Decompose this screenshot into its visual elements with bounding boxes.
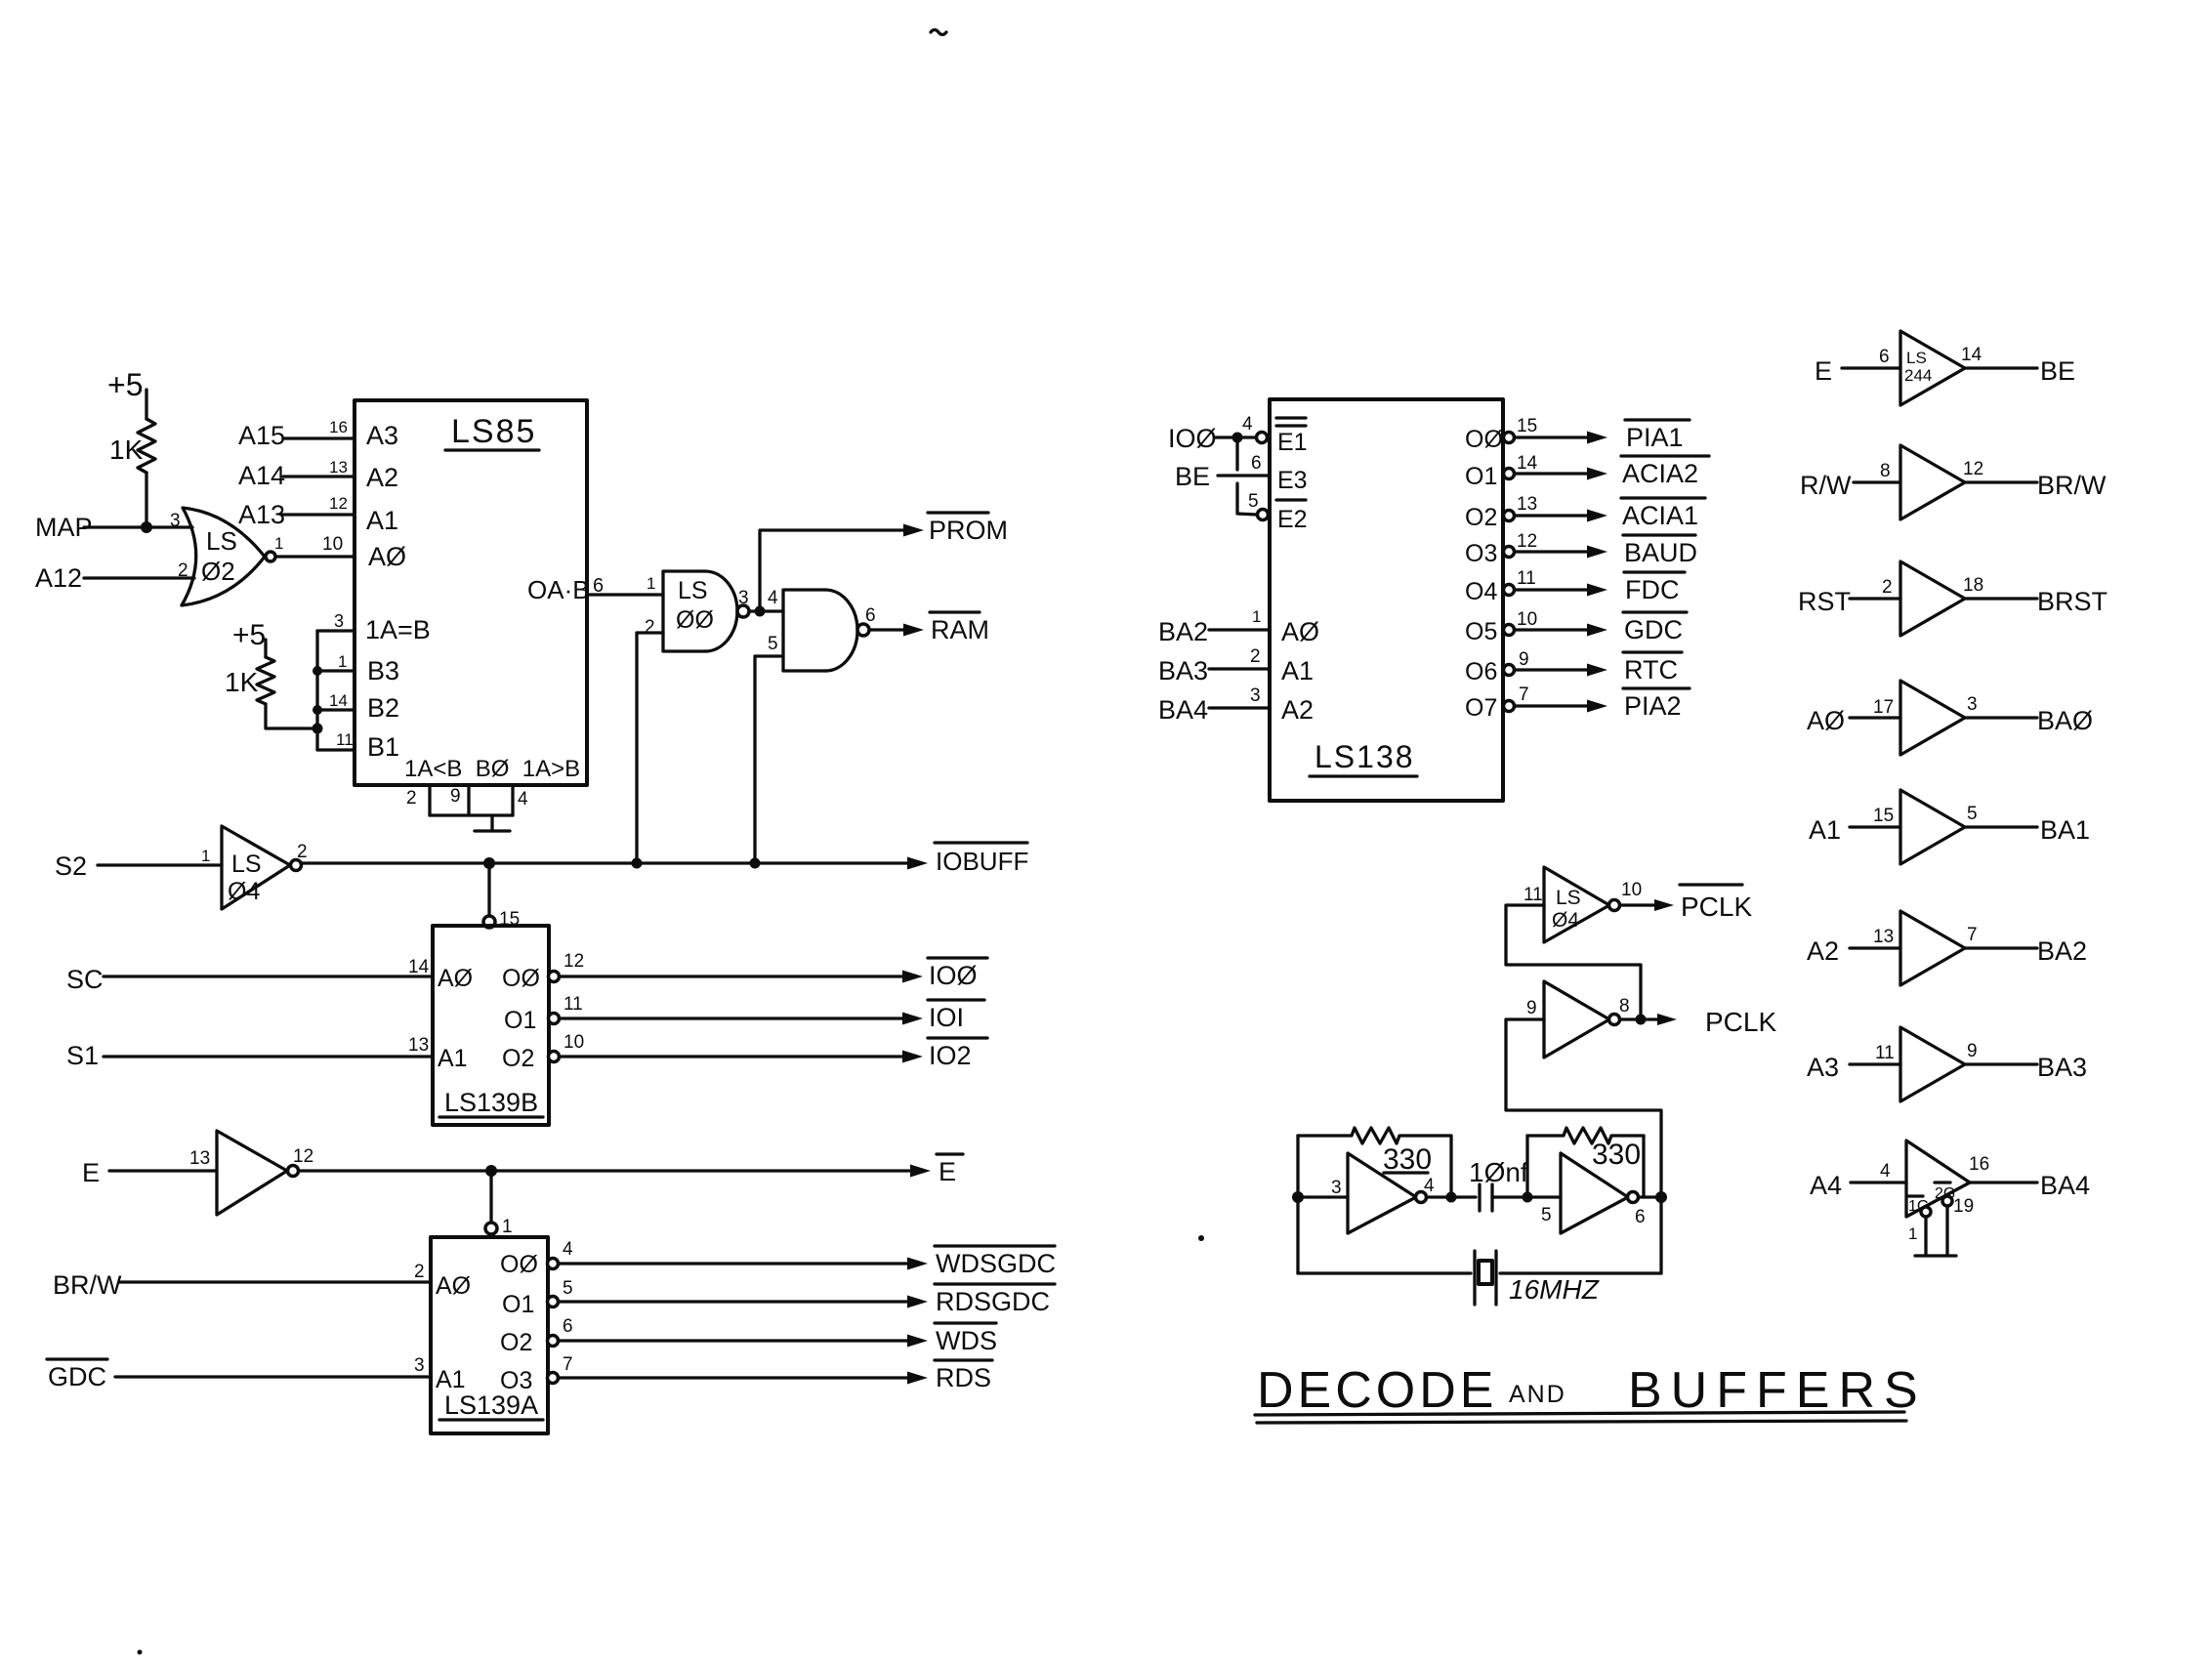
svg-text:ACIA1: ACIA1	[1622, 501, 1698, 530]
svg-text:S1: S1	[66, 1041, 99, 1070]
svg-text:5: 5	[1248, 491, 1259, 512]
svg-text:IOBUFF: IOBUFF	[936, 847, 1028, 876]
LS139A O0 pin4 output	[548, 1239, 929, 1270]
svg-text:BR/W: BR/W	[2037, 471, 2107, 500]
svg-text:BA4: BA4	[1158, 695, 1208, 725]
svg-text:A1: A1	[366, 506, 398, 535]
svg-text:1Ønf: 1Ønf	[1469, 1157, 1528, 1187]
svg-text:IOØ: IOØ	[1168, 424, 1217, 453]
svg-text:1: 1	[274, 534, 283, 553]
LS139A O3 pin7 output	[548, 1354, 929, 1385]
inverter (osc1, pins 3-4)	[1331, 1153, 1435, 1233]
svg-text:3: 3	[334, 611, 344, 631]
buffer RST->BRST	[1798, 561, 2108, 636]
svg-text:E: E	[1815, 356, 1832, 386]
svg-text:12: 12	[563, 951, 584, 972]
svg-text:Ø4: Ø4	[1552, 909, 1579, 932]
inverter (PCLK, pins 9-8)	[1526, 981, 1630, 1058]
svg-text:BR/W: BR/W	[53, 1270, 122, 1300]
svg-text:3: 3	[1967, 694, 1978, 715]
svg-text:A1: A1	[436, 1366, 466, 1393]
stub pin1 B3	[317, 669, 355, 672]
svg-text:11: 11	[1517, 568, 1536, 589]
svg-text:13: 13	[408, 1035, 429, 1056]
svg-text:O2: O2	[502, 1045, 534, 1072]
svg-text:BAUD: BAUD	[1624, 538, 1697, 567]
LS138 O1 pin14 output to ACIA2	[1465, 453, 1709, 490]
svg-text:9: 9	[1967, 1041, 1978, 1061]
arrow RAM	[903, 624, 924, 637]
GDC input label (overline)	[47, 1359, 107, 1391]
svg-text:ØØ: ØØ	[676, 606, 714, 634]
svg-text:1K: 1K	[225, 667, 259, 697]
svg-text:O1: O1	[1465, 463, 1497, 490]
svg-text:5: 5	[1541, 1205, 1552, 1225]
svg-text:SC: SC	[66, 965, 104, 994]
svg-text:LS: LS	[1906, 349, 1927, 367]
arrow PCLKbar	[1654, 899, 1674, 911]
svg-text:2: 2	[297, 842, 308, 862]
LS139A O1 pin5 output	[548, 1278, 929, 1308]
svg-text:O3: O3	[1465, 540, 1497, 567]
svg-text:16: 16	[329, 418, 348, 436]
+5 supply (top left)	[107, 367, 146, 419]
svg-text:O4: O4	[1465, 578, 1497, 605]
NAND gate 2 (RAM)	[768, 590, 876, 671]
svg-text:6: 6	[1879, 347, 1890, 367]
net IO1 label	[928, 1000, 984, 1032]
wire BR/W to A0 pin2	[119, 1280, 431, 1283]
buffer A1->BA1	[1809, 790, 2090, 864]
LS138 O6 pin9 output to RTC	[1465, 649, 1682, 685]
svg-text:15: 15	[1873, 806, 1894, 826]
svg-text:BRST: BRST	[2037, 587, 2108, 616]
svg-text:10: 10	[1517, 609, 1537, 630]
wire LS00 output to NAND2 pin4	[749, 609, 783, 612]
svg-text:4: 4	[563, 1239, 573, 1260]
svg-text:PCLK: PCLK	[1705, 1007, 1776, 1037]
svg-text:13: 13	[329, 458, 348, 477]
buffer LS244 E->BE	[1815, 331, 2075, 405]
svg-text:B1: B1	[367, 732, 399, 762]
svg-text:LS85: LS85	[451, 413, 536, 450]
LS138 O5 pin10 output to GDC	[1465, 609, 1687, 645]
LS139B O2 pin10 output	[549, 1032, 924, 1063]
svg-text:10: 10	[563, 1032, 584, 1053]
svg-text:BA3: BA3	[2037, 1053, 2087, 1082]
svg-text:LS: LS	[678, 577, 708, 604]
wire GDC to A1 pin3	[115, 1375, 431, 1378]
svg-text:A2: A2	[366, 463, 398, 492]
LS85 bottom pins 2,9,4	[406, 785, 528, 815]
ground (LS244 enables)	[1915, 1254, 1956, 1257]
wire osc loop2 left	[1525, 1136, 1528, 1197]
svg-text:FDC: FDC	[1625, 575, 1680, 604]
inverter (osc2, pins 5-6)	[1541, 1153, 1646, 1233]
svg-text:AØ: AØ	[436, 1272, 471, 1300]
arrow PROM	[903, 524, 924, 537]
svg-text:11: 11	[336, 730, 354, 749]
svg-text:+5: +5	[107, 367, 143, 402]
stub pin14 B2	[317, 708, 355, 711]
svg-text:4: 4	[1424, 1176, 1435, 1196]
svg-text:Ø2: Ø2	[201, 557, 235, 586]
svg-text:1: 1	[502, 1217, 513, 1237]
resistor 1K (B-side)	[225, 657, 274, 704]
svg-text:S2: S2	[55, 851, 87, 881]
wire NAND2 pin5 from IOBUFF	[755, 656, 783, 863]
svg-text:330: 330	[1592, 1139, 1641, 1171]
svg-text:11: 11	[1875, 1043, 1895, 1063]
wire LS139B enable from IOBUFF	[487, 863, 490, 916]
svg-text:PIA1: PIA1	[1626, 423, 1684, 452]
svg-text:IOØ: IOØ	[929, 961, 978, 990]
svg-text:A1: A1	[1809, 815, 1841, 845]
svg-text:PROM: PROM	[929, 516, 1008, 545]
B input bus vertical	[315, 631, 318, 750]
svg-text:8: 8	[1619, 996, 1630, 1017]
comparator U LS85	[355, 400, 587, 785]
svg-text:R/W: R/W	[1800, 471, 1852, 500]
svg-text:Ø4: Ø4	[228, 878, 260, 905]
net PROM label	[928, 513, 1008, 545]
svg-text:6: 6	[865, 605, 876, 626]
arrow IOBUFF	[907, 857, 928, 870]
wire cap to osc2 input	[1492, 1195, 1561, 1198]
svg-text:1: 1	[338, 652, 347, 671]
svg-text:3: 3	[414, 1355, 425, 1376]
inverter LS04 (PCLKbar)	[1523, 867, 1642, 942]
svg-text:OØ: OØ	[500, 1251, 538, 1278]
svg-text:11: 11	[563, 994, 583, 1015]
net IO2 label	[928, 1038, 987, 1070]
svg-text:16MHZ: 16MHZ	[1509, 1274, 1600, 1305]
inverter (E)	[189, 1131, 313, 1215]
svg-text:O5: O5	[1465, 618, 1497, 645]
wire PCLK output	[1620, 1017, 1660, 1020]
wire pin9 input from oscillator	[1506, 1019, 1661, 1197]
svg-text:E1: E1	[1277, 429, 1308, 456]
svg-text:DECODE: DECODE	[1257, 1362, 1497, 1419]
svg-text:19: 19	[1953, 1196, 1974, 1217]
wire osc loop1 right	[1449, 1136, 1452, 1197]
net IO0 label	[928, 958, 987, 990]
resistor 330 (osc2 feedback)	[1527, 1128, 1644, 1171]
svg-text:BE: BE	[2040, 356, 2075, 386]
svg-text:4: 4	[768, 588, 778, 608]
wire resistor to B bus	[266, 704, 317, 728]
stub pin3 1A=B	[317, 629, 355, 632]
svg-text:E: E	[939, 1157, 956, 1186]
svg-text:17: 17	[1873, 697, 1894, 718]
svg-text:OØ: OØ	[1465, 426, 1503, 453]
node Ebar/LS139A	[485, 1165, 497, 1177]
wire LS00 pin2 from IOBUFF	[637, 633, 663, 863]
node IOBUFF/pin2	[632, 858, 643, 869]
svg-text:+5: +5	[232, 619, 266, 651]
svg-text:BA2: BA2	[1158, 617, 1208, 646]
svg-text:O6: O6	[1465, 658, 1497, 685]
svg-text:330: 330	[1383, 1143, 1432, 1176]
wire IOBUFF net	[302, 861, 911, 864]
LS138 O2 pin13 output to ACIA1	[1465, 494, 1705, 531]
svg-text:14: 14	[1517, 453, 1538, 474]
decoder U LS138	[1270, 399, 1503, 801]
svg-text:244: 244	[1904, 366, 1932, 385]
svg-text:2: 2	[178, 560, 188, 581]
svg-text:12: 12	[1963, 459, 1983, 479]
svg-text:LS: LS	[1556, 887, 1581, 909]
svg-text:AND: AND	[1509, 1381, 1566, 1408]
title DECODE AND BUFFERS	[1255, 1362, 1927, 1423]
LS139A O2 pin6 output	[548, 1316, 929, 1348]
svg-text:B3: B3	[367, 656, 399, 685]
wire RAM output	[869, 628, 906, 631]
svg-text:1A=B: 1A=B	[365, 615, 431, 644]
LS138 O7 pin7 output to PIA2	[1465, 685, 1690, 722]
svg-text:BA4: BA4	[2040, 1171, 2090, 1200]
svg-text:1: 1	[647, 574, 655, 593]
svg-text:2: 2	[645, 617, 655, 638]
stub pin11 B1	[317, 748, 355, 751]
resistor 330 (osc1 feedback)	[1298, 1128, 1451, 1176]
svg-text:RDS: RDS	[936, 1363, 991, 1392]
+5 supply (B-side)	[232, 619, 266, 657]
svg-text:A1: A1	[438, 1045, 468, 1072]
wire S2	[98, 863, 222, 866]
svg-text:3: 3	[1331, 1178, 1342, 1198]
svg-text:LS139B: LS139B	[444, 1088, 538, 1117]
svg-text:OØ: OØ	[502, 965, 540, 992]
crystal 16MHZ	[1298, 1251, 1661, 1305]
svg-text:4: 4	[1242, 414, 1253, 435]
wire MAP	[84, 525, 192, 528]
svg-text:9: 9	[1526, 998, 1537, 1018]
LS138 O3 pin12 output to BAUD	[1465, 531, 1697, 567]
svg-text:2: 2	[406, 788, 417, 809]
svg-text:IO2: IO2	[929, 1041, 972, 1070]
svg-text:13: 13	[1873, 927, 1894, 947]
svg-text:A12: A12	[35, 563, 82, 593]
svg-text:10: 10	[1621, 880, 1642, 900]
svg-text:4: 4	[518, 789, 528, 809]
wire A12	[84, 576, 194, 579]
wire resistor to MAP line	[145, 473, 147, 527]
svg-text:PCLK: PCLK	[1681, 892, 1752, 922]
svg-text:4: 4	[1880, 1161, 1891, 1182]
resistor 1K (pull-up, top left)	[109, 419, 155, 473]
wire LS139A enable from Ebar	[489, 1171, 492, 1223]
svg-text:A2: A2	[1807, 936, 1839, 966]
wire osc loop1 left	[1296, 1136, 1299, 1273]
svg-text:RTC: RTC	[1624, 655, 1678, 685]
wire LS85 pin6 to NAND pin1	[587, 593, 663, 596]
wire S1 to A1 pin13	[104, 1055, 433, 1058]
LS138 O4 pin11 output to FDC	[1465, 568, 1685, 605]
svg-text:A14: A14	[238, 461, 285, 490]
svg-text:RDSGDC: RDSGDC	[936, 1287, 1050, 1316]
svg-text:LS: LS	[206, 526, 237, 556]
wire tie to E2	[1237, 483, 1257, 515]
svg-text:6: 6	[563, 1316, 573, 1337]
svg-text:AØ: AØ	[438, 965, 473, 992]
net IOBUFF label	[935, 843, 1028, 876]
wire osc right vertical to crystal	[1659, 1197, 1662, 1273]
svg-text:9: 9	[450, 786, 461, 807]
svg-text:ACIA2: ACIA2	[1622, 459, 1698, 488]
capacitor 10nf	[1469, 1157, 1528, 1211]
svg-text:B2: B2	[367, 693, 399, 723]
svg-text:BA1: BA1	[2040, 815, 2090, 845]
svg-text:E: E	[82, 1158, 100, 1187]
svg-text:1: 1	[1908, 1224, 1917, 1243]
buffer A2->BA2	[1807, 911, 2087, 985]
NOR gate LS02	[170, 508, 283, 605]
svg-text:BUFFERS: BUFFERS	[1628, 1362, 1927, 1419]
svg-text:WDSGDC: WDSGDC	[936, 1249, 1056, 1278]
wire SC to A0 pin14	[104, 975, 433, 977]
svg-text:3: 3	[1250, 685, 1261, 706]
svg-text:GDC: GDC	[48, 1362, 106, 1391]
svg-text:AØ: AØ	[1807, 706, 1845, 735]
buffer R/W->BR/W	[1800, 445, 2107, 519]
svg-text:7: 7	[1519, 685, 1529, 705]
svg-text:16: 16	[1969, 1154, 1989, 1175]
wire E1 to E2 tie	[1235, 437, 1238, 470]
svg-text:O3: O3	[500, 1367, 532, 1394]
svg-text:1: 1	[201, 847, 210, 865]
svg-text:1A<B BØ 1A>B: 1A<B BØ 1A>B	[404, 756, 580, 782]
decoder U LS139B	[433, 926, 549, 1125]
wire osc loop2 right	[1642, 1136, 1645, 1197]
buffer A4->BA4	[1810, 1141, 2090, 1217]
svg-text:3: 3	[738, 588, 749, 608]
svg-text:12: 12	[293, 1146, 313, 1167]
net Ebar label	[937, 1154, 963, 1186]
svg-text:7: 7	[563, 1354, 573, 1375]
wire Ebar net	[299, 1169, 914, 1172]
svg-text:A4: A4	[1810, 1171, 1842, 1200]
svg-text:11: 11	[1523, 885, 1543, 905]
svg-text:LS139A: LS139A	[444, 1390, 538, 1420]
svg-text:LS138: LS138	[1315, 739, 1415, 774]
stray mark (top)	[931, 30, 946, 35]
svg-text:BE: BE	[1175, 462, 1210, 491]
node MAP/resistor junction	[141, 521, 152, 533]
svg-text:E2: E2	[1277, 506, 1308, 533]
arrow Ebar	[910, 1165, 931, 1178]
wire PCLKbar output	[1620, 903, 1657, 906]
svg-text:A3: A3	[1807, 1053, 1839, 1082]
svg-text:3: 3	[170, 511, 181, 531]
svg-text:O2: O2	[500, 1329, 532, 1356]
arrow PCLK	[1657, 1014, 1677, 1025]
svg-text:WDS: WDS	[936, 1326, 997, 1355]
decoder U LS139A	[431, 1237, 548, 1433]
svg-text:5: 5	[768, 634, 778, 654]
svg-text:O1: O1	[502, 1291, 534, 1318]
stray dot (bottom left)	[138, 1650, 143, 1655]
svg-text:A13: A13	[238, 500, 285, 529]
net RDS label	[935, 1360, 992, 1392]
svg-text:5: 5	[563, 1278, 573, 1299]
svg-text:1: 1	[1252, 607, 1261, 626]
svg-text:O1: O1	[504, 1007, 536, 1034]
svg-text:6: 6	[1251, 453, 1262, 474]
wire junction up to PROM	[760, 530, 906, 611]
node IOBUFF/LS139B	[483, 857, 495, 869]
svg-text:AØ: AØ	[368, 542, 406, 571]
net RAM label	[930, 612, 989, 644]
LS244 enable pins 1,19 with bubbles	[1908, 1183, 1974, 1254]
svg-text:2: 2	[1882, 577, 1893, 598]
svg-text:A3: A3	[366, 421, 398, 450]
svg-text:O2: O2	[1465, 504, 1497, 531]
LS139B O0 pin12 output	[549, 951, 924, 983]
svg-text:BAØ: BAØ	[2037, 706, 2093, 735]
svg-text:OA·B: OA·B	[527, 575, 590, 604]
wire osc1 output to cap	[1427, 1195, 1476, 1198]
svg-text:12: 12	[329, 494, 348, 513]
svg-text:14: 14	[1961, 345, 1982, 365]
stray dot	[1198, 1235, 1204, 1241]
net WDSGDC label	[935, 1246, 1056, 1278]
svg-text:18: 18	[1963, 575, 1983, 596]
svg-text:O7: O7	[1465, 694, 1497, 722]
svg-text:1K: 1K	[109, 435, 144, 465]
buffer A0->BA0	[1807, 681, 2093, 755]
svg-text:9: 9	[1519, 649, 1529, 670]
svg-text:14: 14	[329, 691, 348, 710]
svg-text:14: 14	[408, 957, 430, 977]
net PCLKbar label	[1680, 885, 1752, 922]
svg-text:A2: A2	[1281, 695, 1314, 725]
svg-text:15: 15	[1517, 416, 1537, 436]
LS138 O0 pin15 output to PIA1	[1465, 416, 1690, 453]
ground (LS85 bottom)	[475, 815, 510, 831]
svg-text:PIA2: PIA2	[1624, 691, 1682, 721]
svg-text:GDC: GDC	[1624, 615, 1683, 644]
svg-text:RAM: RAM	[931, 615, 989, 644]
svg-text:LS: LS	[231, 851, 262, 878]
svg-text:BA3: BA3	[1158, 656, 1208, 685]
svg-text:10: 10	[322, 534, 343, 555]
svg-text:13: 13	[189, 1148, 210, 1169]
svg-text:BA2: BA2	[2037, 936, 2087, 966]
wire osc2 output	[1639, 1195, 1661, 1198]
svg-text:A1: A1	[1281, 656, 1314, 685]
svg-text:8: 8	[1880, 461, 1891, 481]
svg-text:E3: E3	[1277, 467, 1308, 494]
wire E	[109, 1169, 217, 1172]
svg-text:IOI: IOI	[929, 1003, 964, 1032]
svg-text:6: 6	[1635, 1207, 1646, 1227]
svg-text:12: 12	[1517, 531, 1537, 552]
wire NOR output to LS85 A0 pin 10	[275, 555, 355, 558]
NAND gate LS00	[645, 571, 749, 651]
svg-text:AØ: AØ	[1281, 617, 1319, 646]
net RDSGDC label	[935, 1284, 1055, 1316]
svg-text:A15: A15	[238, 421, 285, 450]
inverter LS04 (S2)	[201, 826, 308, 909]
buffer A3->BA3	[1807, 1027, 2087, 1101]
svg-text:2: 2	[1250, 646, 1261, 667]
svg-text:13: 13	[1517, 494, 1537, 515]
wire LS04 pin11 input from PCLK	[1506, 905, 1641, 1019]
svg-text:7: 7	[1967, 925, 1978, 945]
svg-text:2: 2	[414, 1262, 425, 1282]
wire osc1 input	[1298, 1195, 1348, 1198]
